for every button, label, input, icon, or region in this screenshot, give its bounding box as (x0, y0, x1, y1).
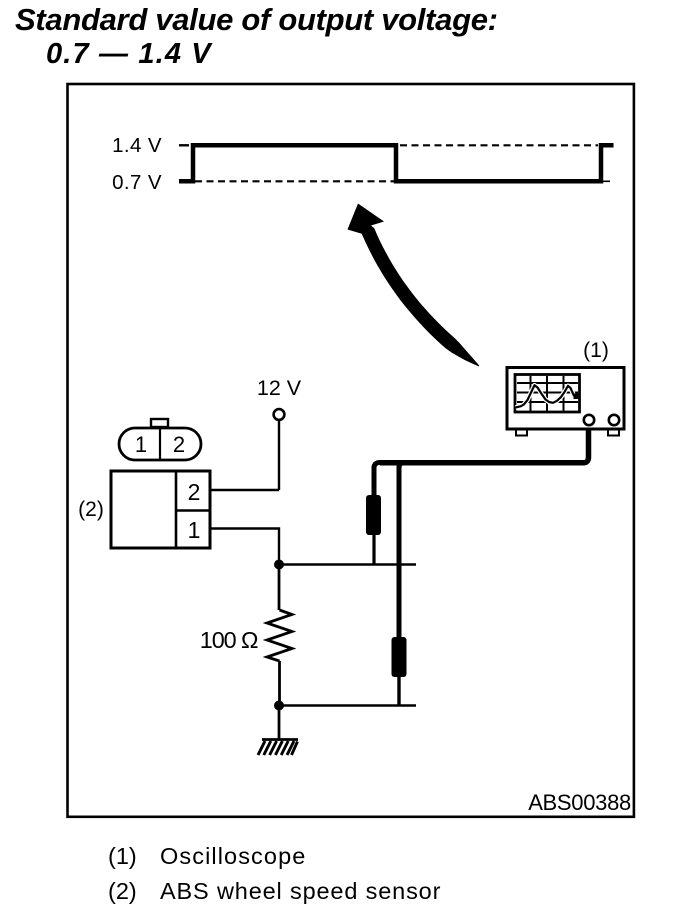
oscilloscope knob A (584, 415, 594, 425)
oscilloscope foot right (608, 430, 619, 436)
sensor body box (111, 471, 210, 548)
label 1.4 V (112, 134, 162, 157)
svg-text:1.4 V: 1.4 V (112, 134, 162, 157)
svg-text:1: 1 (188, 517, 201, 543)
wire pin2 to 12V line (210, 489, 279, 491)
sensor pin row divider (176, 509, 210, 512)
waveform dashed low level (195, 180, 395, 182)
wire pin1 to node A (210, 529, 279, 565)
sensor connector tab (151, 419, 168, 427)
probe connector sleeve left (366, 495, 381, 535)
wire resistor to node B (278, 661, 281, 705)
title line 2 (46, 38, 213, 70)
curved arrow to waveform (348, 204, 480, 367)
svg-text:ABS00388: ABS00388 (528, 790, 631, 815)
probe connector sleeve right (392, 637, 407, 677)
waveform square wave solid trace (179, 145, 614, 181)
wire node B to right (279, 704, 416, 706)
svg-text:Oscilloscope: Oscilloscope (160, 843, 306, 869)
svg-text:12 V: 12 V (257, 376, 302, 400)
legend item 1 (108, 843, 306, 869)
resistor value label 100 Ω (200, 627, 258, 653)
oscilloscope knob B (609, 415, 619, 425)
wire node A to right (279, 563, 416, 565)
probe lead right lower (397, 677, 400, 706)
node A junction dot (274, 560, 284, 570)
resistor 100 ohm zigzag (267, 610, 292, 661)
probe lead horizontal run to oscilloscope (380, 428, 589, 463)
svg-text:(2): (2) (108, 878, 137, 904)
12 V supply terminal (274, 409, 285, 420)
title line 1 (15, 2, 498, 37)
svg-text:2: 2 (188, 479, 201, 505)
waveform tick at 1.4 V level (179, 144, 189, 146)
oscilloscope U1 body (507, 368, 624, 430)
label (1) (583, 339, 609, 362)
oscilloscope foot left (516, 430, 527, 436)
label 12 V (257, 376, 302, 400)
wire node B to ground (278, 706, 281, 740)
oscilloscope screen (515, 375, 580, 413)
svg-text:0.7 — 1.4 V: 0.7 — 1.4 V (46, 38, 213, 70)
label (2) (78, 498, 104, 521)
svg-text:(1): (1) (583, 339, 609, 362)
oscilloscope screen trace (516, 385, 579, 407)
probe lead left lower (372, 535, 375, 564)
svg-text:2: 2 (173, 432, 185, 457)
oscilloscope screen grid (517, 376, 578, 411)
outer figure frame (68, 84, 634, 817)
wire node A to resistor (278, 565, 281, 611)
svg-text:Standard value of output volta: Standard value of output voltage: (15, 2, 498, 37)
svg-text:1: 1 (135, 432, 147, 457)
label 0.7 V (112, 171, 162, 194)
sensor connector pill (119, 428, 201, 460)
ground symbol (258, 740, 298, 756)
waveform thin extension at 0.7 V level (599, 180, 610, 182)
node B junction dot (274, 701, 284, 711)
svg-text:(1): (1) (108, 843, 137, 869)
probe lead right vertical (399, 463, 405, 640)
waveform dashed high level (400, 144, 598, 146)
sensor pin column divider (175, 471, 178, 548)
pin label 2 in box (188, 479, 201, 505)
pin label 1 in pill (135, 432, 147, 457)
wire 12V terminal to pin2 node (278, 421, 280, 491)
probe lead left vertical (374, 463, 380, 498)
pin label 2 in pill (173, 432, 185, 457)
svg-text:ABS wheel speed sensor: ABS wheel speed sensor (160, 878, 441, 904)
svg-text:100 Ω: 100 Ω (200, 627, 258, 653)
pin label 1 in box (188, 517, 201, 543)
svg-text:(2): (2) (78, 498, 104, 521)
sensor connector divider (159, 428, 161, 460)
svg-text:0.7 V: 0.7 V (112, 171, 162, 194)
legend item 2 (108, 878, 441, 904)
figure code ABS00388 (528, 790, 631, 815)
